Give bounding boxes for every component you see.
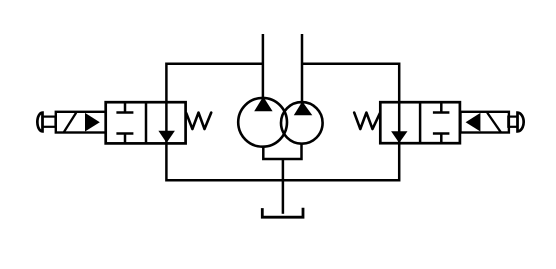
solenoid S2 diagonal — [487, 113, 501, 133]
solenoid S1 button stem — [43, 117, 56, 127]
solenoid S1 diagonal — [64, 113, 76, 133]
solenoid S1 arrow triangle — [85, 113, 100, 132]
wire: left pump riser — [262, 34, 265, 102]
wire: pump suction manifold — [263, 143, 301, 159]
valve V1 blocked port top (T symbol) — [116, 102, 133, 112]
valve V2 blocked port bottom (T symbol) — [433, 134, 450, 144]
wire: tank drop line — [282, 159, 285, 214]
pump P2 flow triangle — [294, 102, 313, 116]
solenoid S2 arrow triangle — [466, 113, 481, 132]
pump P1 flow triangle — [254, 97, 272, 112]
solenoid S2 button stem — [508, 117, 517, 127]
valve V1 flow arrow (down) — [158, 131, 175, 143]
valve V2 blocked port top (T symbol) — [433, 102, 450, 112]
wire: circuit frame (top-left rail, left vertical, bottom rail, right vertical, top-right rail) — [166, 64, 399, 181]
valve V2 body — [380, 102, 460, 143]
solenoid S1 box — [56, 112, 106, 133]
spring V2 (W) — [354, 113, 380, 129]
solenoid S2 button cap — [518, 113, 524, 132]
pump P1 (large) — [238, 98, 287, 147]
valve V1 center divider — [145, 102, 148, 143]
solenoid S2 box — [461, 112, 509, 133]
tank T1 — [262, 208, 303, 218]
valve V1 blocked port bottom (T symbol) — [116, 134, 133, 144]
solenoid S1 button cap — [37, 113, 42, 132]
wire: right pump riser — [301, 34, 304, 106]
spring V1 (W) — [186, 113, 211, 129]
valve V1 body — [106, 102, 186, 143]
pump P2 (small) — [281, 102, 323, 144]
valve V2 flow arrow (down) — [391, 131, 407, 143]
valve V2 center divider — [419, 102, 422, 143]
